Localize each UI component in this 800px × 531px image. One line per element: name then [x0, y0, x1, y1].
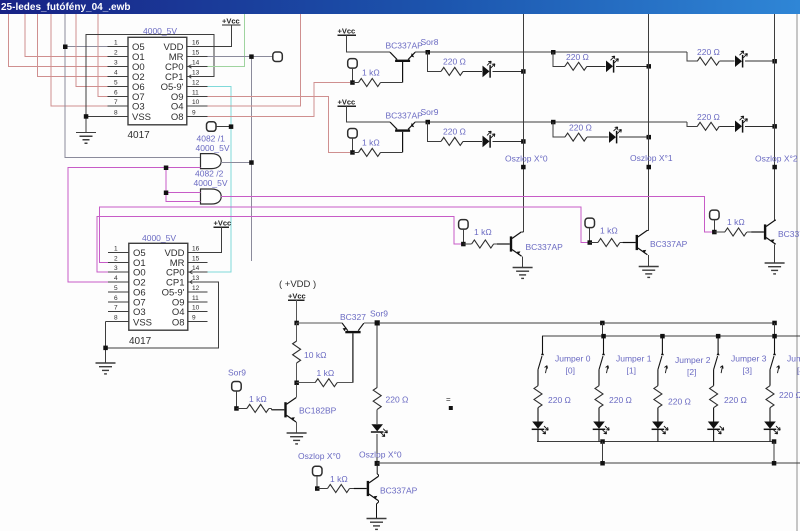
power +Vcc of U1 — [208, 17, 241, 47]
wire R13 to BC327 base riser — [337, 382, 353, 384]
svg-text:2: 2 — [114, 50, 118, 57]
connector pad Sor8 input — [348, 59, 358, 69]
resistor R12 10k vertical — [293, 341, 301, 363]
jumper J4 column — [764, 336, 781, 441]
wire net O2 feed to U1 pin4 — [38, 14, 108, 76]
svg-text:220 Ω: 220 Ω — [569, 123, 592, 133]
wire green CP0 of U1 up to top — [208, 14, 245, 66]
svg-text:12: 12 — [192, 79, 200, 86]
wire node to R9 — [463, 243, 471, 245]
wire Q3 emitter down — [522, 256, 524, 267]
wire R15 to LED7 — [376, 409, 378, 424]
ground GND1 below U1 VSS — [76, 127, 96, 143]
U1 left pin names — [132, 42, 151, 123]
node junction dot gate1 output on MR net — [249, 160, 254, 165]
svg-text:VSS: VSS — [133, 317, 152, 328]
svg-text:VSS: VSS — [132, 112, 151, 123]
wire net O6 feed to U1 pin5 — [76, 14, 108, 86]
wire column Oszlop X^0 — [522, 14, 524, 232]
wire Sor9 col2 branch — [687, 122, 697, 126]
wire Sor9 col0 branch — [428, 122, 441, 141]
wire 10k to node — [296, 363, 298, 383]
wire column Oszlop X^1 — [648, 14, 650, 230]
wire pad to 1k node — [351, 68, 353, 83]
node dot = marker — [449, 406, 453, 410]
U1 right pin numbers — [192, 40, 200, 117]
wire grey MR net: U1 pin15 to connector and down to U2 MR — [208, 57, 274, 261]
svg-text:4017: 4017 — [128, 130, 151, 141]
wire Q7 base link — [271, 408, 273, 409]
resistor R11 1k X2 driver — [725, 228, 747, 236]
jumper J1 column — [593, 336, 610, 441]
node label dot X2 — [772, 165, 777, 170]
svg-text:BC337AP: BC337AP — [386, 41, 424, 51]
svg-text:4082 /2: 4082 /2 — [195, 169, 224, 179]
node junction dot Oszlop pad — [315, 486, 320, 491]
wire node to R14 — [236, 407, 247, 409]
op-amp U3B 4082 gate 2 — [201, 189, 222, 204]
resistor R7 220 Sor9 col1 — [565, 133, 587, 141]
U2 right pin stubs — [188, 252, 208, 321]
wire salmon O8 net: U1 pin9 to Sor8 1k — [208, 83, 351, 117]
svg-text:[3]: [3] — [743, 366, 752, 376]
svg-text:4082 /1: 4082 /1 — [197, 134, 226, 144]
wire LED3 to X2 — [745, 60, 775, 62]
svg-text:BC337AP: BC337AP — [526, 242, 564, 252]
node junction dot LED1/X0 — [521, 69, 526, 74]
U2 left pin names — [133, 248, 152, 328]
svg-text:1 kΩ: 1 kΩ — [362, 68, 380, 78]
svg-text:Sor9: Sor9 — [228, 368, 246, 378]
wire net O0 feed to U1 pin3 — [9, 14, 108, 66]
connector pad Oszlop X0 — [313, 466, 323, 476]
ground GND3 X1 driver — [639, 267, 659, 278]
wire R8 to LED6 — [719, 125, 734, 127]
svg-text:Jumper 0: Jumper 0 — [555, 354, 591, 364]
wire Sor9 col1 branch — [553, 122, 565, 137]
node junction dot Sor8 col0 branch — [426, 50, 431, 55]
op-amp U2 4017 counter box — [129, 243, 188, 330]
resistor R6 220 Sor9 col0 — [441, 137, 463, 145]
power +Vcc Sor8 — [338, 27, 391, 53]
node junction dot rail/drop2 — [772, 321, 777, 326]
wire column Oszlop X^2 — [774, 14, 776, 221]
U2 left pin numbers — [114, 245, 118, 321]
wire node to R16 — [317, 488, 327, 490]
transistor Q4 BC337AP X1 driver — [623, 230, 648, 254]
node junction dot Sor8 1k — [350, 80, 355, 85]
svg-text:BC182BP: BC182BP — [299, 406, 337, 416]
wire node to R10 — [590, 242, 598, 244]
svg-text:11: 11 — [192, 295, 199, 302]
resistor R9 1k X0 driver — [472, 240, 494, 248]
power +Vcc VDD rail — [288, 292, 306, 323]
svg-text:14: 14 — [192, 265, 200, 272]
wire link return bus to lower bus col1 — [602, 442, 604, 464]
svg-text:5: 5 — [114, 79, 118, 86]
svg-text:3: 3 — [114, 59, 118, 66]
resistor R16 1k bottom — [328, 485, 350, 493]
LED D4 Sor9 col0 — [483, 131, 495, 148]
transistor Q5 BC337 X2 driver — [751, 220, 776, 244]
wire top rail Sor9 node to right — [380, 322, 775, 324]
svg-text:O8: O8 — [171, 112, 184, 123]
svg-text:+Vcc: +Vcc — [222, 17, 240, 26]
svg-text:5: 5 — [114, 285, 118, 292]
U2 left pin stubs — [106, 252, 129, 321]
wire pad to node — [462, 229, 464, 244]
wire Q5 emitter down — [774, 244, 776, 263]
wire magenta U2-O2 net to gate inputs — [68, 168, 201, 282]
svg-text:4: 4 — [114, 69, 118, 76]
wire R2 to LED1 — [463, 70, 482, 72]
U1 CP0 clock triangle marker — [188, 65, 191, 69]
op-amp U1 4017 counter box — [128, 37, 187, 125]
node junction dot bus/jumper4 — [772, 334, 777, 339]
node junction dot magenta T2 — [164, 191, 169, 196]
wire LED4 to X0 — [493, 140, 524, 142]
wire LED return bus — [537, 441, 774, 443]
transistor Q2 BC337AP Sor9 — [390, 122, 415, 152]
node junction dot Sor9 col1 branch — [551, 120, 556, 125]
wire Q5 collector to X2 column — [775, 220, 776, 221]
svg-text:220 Ω: 220 Ω — [443, 127, 466, 137]
ground GND5 U2 VSS — [96, 363, 116, 374]
U2 CP0 clock triangle marker — [189, 270, 192, 274]
node junction dot X1 driver input — [588, 240, 593, 245]
ground GND2 X0 driver — [513, 268, 533, 279]
svg-text:BC337AP: BC337AP — [386, 111, 424, 121]
connector pad MR net — [273, 52, 283, 62]
LED D6 Sor9 col2 — [735, 116, 747, 133]
node junction dot X2 driver input — [712, 230, 717, 235]
svg-text:4000_5V: 4000_5V — [142, 233, 176, 243]
resistor R5 1k Sor9 — [359, 148, 381, 156]
svg-text:220 Ω: 220 Ω — [668, 397, 691, 407]
wire net O3 feed to U1 pin7 — [51, 14, 108, 106]
wire net O5 grey: U1 pin1 to gate U3A input — [65, 14, 201, 157]
svg-text:220 Ω: 220 Ω — [779, 390, 800, 400]
resistor R10 1k X1 driver — [598, 239, 620, 247]
svg-text:13: 13 — [192, 70, 200, 77]
svg-text:220 Ω: 220 Ω — [697, 112, 720, 122]
svg-text:Jumper 2: Jumper 2 — [675, 355, 711, 365]
wire R16 to Q8 base — [350, 488, 354, 490]
resistor R3 220 Sor8 col1 — [565, 62, 587, 70]
svg-text:7: 7 — [114, 99, 118, 106]
U1 left pin stubs 1-8 — [108, 47, 129, 117]
wire +VDD node to BC327 emitter — [297, 322, 343, 324]
svg-text:3: 3 — [114, 265, 118, 272]
svg-text:Jumper 4: Jumper 4 — [787, 354, 800, 364]
svg-text:Oszlop X°1: Oszlop X°1 — [630, 153, 673, 163]
LED D3 Sor8 col2 — [735, 51, 747, 68]
svg-text:220 Ω: 220 Ω — [386, 395, 409, 405]
wire R1 to Q1 base — [381, 82, 403, 84]
svg-text:1: 1 — [114, 245, 118, 252]
node junction dot lower/col4 — [772, 461, 777, 466]
node junction dot Sor9 pad — [234, 406, 239, 411]
node junction dot LED3/X2 — [772, 59, 777, 64]
ground GND4 X2 driver — [765, 263, 785, 274]
node junction dot MR net — [249, 54, 254, 59]
node junction dot LED4/X0 — [521, 139, 526, 144]
svg-text:1 kΩ: 1 kΩ — [362, 138, 380, 148]
svg-text:4000_5V: 4000_5V — [143, 26, 177, 36]
svg-text:1 kΩ: 1 kΩ — [317, 368, 335, 378]
node junction dot X0 bottom node — [375, 461, 380, 466]
wire LED1 to X0 — [493, 70, 524, 72]
svg-text:[2]: [2] — [687, 367, 696, 377]
resistor R4 220 Sor8 col2 — [697, 57, 719, 65]
wire salmon O9 net: U1 pin11 to Sor9 1k — [208, 96, 351, 152]
node junction dot +VDD node — [294, 321, 299, 326]
wire 10k from +VDD node down — [296, 323, 298, 341]
wire U2 VSS down — [105, 322, 107, 364]
wire net O1 feed to U1 pin2 — [25, 14, 108, 57]
transistor Q7 BC182BP — [272, 398, 297, 422]
node B junction dot VSS rail — [84, 114, 89, 119]
wire LED5 to X1 — [619, 136, 649, 138]
transistor Q3 BC337AP X0 driver — [497, 232, 522, 256]
svg-text:Oszlop X°0: Oszlop X°0 — [505, 154, 548, 164]
jumper J0 column — [532, 336, 549, 441]
svg-text:15: 15 — [192, 255, 200, 262]
wire node to R5 — [352, 151, 358, 153]
op-amp U3A 4082 gate 1 — [201, 154, 222, 169]
svg-text:9: 9 — [192, 109, 196, 116]
connector pad X0 driver — [459, 220, 469, 230]
svg-text:1 kΩ: 1 kΩ — [600, 226, 618, 236]
wire R4 to LED3 — [719, 60, 734, 62]
resistor R2 220 Sor8 col0 — [441, 67, 463, 75]
svg-text:BC327: BC327 — [340, 312, 366, 322]
svg-text:10: 10 — [192, 305, 200, 312]
wire Sor8 col1 branch — [553, 52, 565, 66]
wire Q7 emitter down to ground — [295, 422, 298, 433]
svg-text:+Vcc: +Vcc — [338, 27, 356, 36]
resistor R15 220 vertical — [373, 387, 381, 409]
transistor Q6 BC327 — [342, 323, 364, 383]
svg-text:Sor9: Sor9 — [421, 107, 439, 117]
U2 right pin names — [162, 248, 185, 328]
svg-text:Oszlop X°0: Oszlop X°0 — [298, 451, 341, 461]
U1 right pin names — [161, 42, 184, 123]
wire pad to 1k node — [351, 138, 353, 152]
node A junction dot pin1/O5 — [63, 45, 68, 50]
ground GND7 Q8 — [367, 519, 387, 530]
wire link return bus to lower bus col4 — [773, 442, 775, 464]
wire R9 to Q3 base — [494, 243, 497, 245]
wire R10 to Q4 base — [620, 242, 623, 244]
node junction dot return/col1 — [600, 439, 605, 444]
wire U2 CP1 to VSS rail — [106, 282, 219, 348]
wire Q4 collector to X1 column — [647, 229, 648, 231]
svg-text:14: 14 — [192, 59, 200, 66]
svg-text:( +VDD ): ( +VDD ) — [279, 279, 316, 290]
svg-text:9: 9 — [192, 315, 196, 322]
svg-text:1 kΩ: 1 kΩ — [727, 217, 745, 227]
resistor R1 1k Sor8 — [359, 79, 381, 87]
wire R11 to Q5 base — [747, 231, 751, 233]
node label dot X1 — [647, 165, 652, 170]
svg-text:16: 16 — [192, 245, 200, 252]
Q2 emitter wire to node — [415, 121, 687, 123]
wire R3 to LED2 — [587, 65, 606, 67]
svg-text:Oszlop X°2: Oszlop X°2 — [755, 154, 798, 164]
wire Q3 collector to X0 column — [522, 231, 523, 233]
wire R6 to LED4 — [463, 140, 482, 142]
LED D1 Sor8 col0 — [483, 61, 495, 78]
svg-text:Sor9: Sor9 — [370, 309, 388, 319]
svg-text:220 Ω: 220 Ω — [443, 57, 466, 67]
svg-text:1: 1 — [114, 40, 118, 47]
LED D5 Sor9 col1 — [609, 127, 621, 144]
svg-text:220 Ω: 220 Ω — [609, 395, 632, 405]
node junction dot on cyan net — [229, 124, 234, 128]
LED D2 Sor8 col1 — [606, 56, 618, 73]
connector pad Sor9 bottom — [232, 382, 242, 392]
svg-text:10: 10 — [192, 99, 200, 106]
wire pad to node — [713, 220, 715, 233]
resistor R14 1k Sor9 bottom — [247, 404, 269, 412]
wire node to R1 — [352, 82, 358, 84]
node junction dot U2 VSS rail — [103, 346, 108, 351]
svg-text:O8: O8 — [172, 317, 185, 328]
power +Vcc of U2 — [208, 219, 232, 253]
wire salmon O4 net: U1 pin10 up off-screen — [208, 14, 301, 106]
svg-text:4000_5V: 4000_5V — [196, 143, 230, 153]
jumper J3 column — [707, 336, 724, 441]
wire rail drop at col4 — [774, 323, 776, 336]
U2 right pin numbers — [192, 245, 200, 321]
svg-text:+Vcc: +Vcc — [338, 98, 356, 107]
svg-text:[0]: [0] — [566, 366, 575, 376]
wire net O7 feed to U1 pin6 — [98, 14, 108, 96]
node junction dot lower/col1 — [600, 461, 605, 466]
wire jumper feed bus — [543, 336, 800, 344]
wire LED7 down to X0 node — [376, 434, 378, 463]
svg-text:4: 4 — [114, 275, 118, 282]
wire R14 to Q7 base — [269, 407, 272, 409]
node junction dot bus/jumper1 — [601, 334, 606, 339]
wire R5 to Q2 base — [381, 151, 403, 153]
svg-text:Jumper 3: Jumper 3 — [731, 354, 767, 364]
wire Q7 collector up to node — [295, 385, 298, 398]
svg-text:[1]: [1] — [627, 366, 636, 376]
jumper J2 column — [652, 336, 669, 441]
U2 CP1 marker — [190, 280, 192, 283]
wire pad to node — [316, 476, 318, 489]
svg-text:BC337AP: BC337AP — [380, 486, 418, 496]
node junction dot Sor9 col0 branch — [426, 120, 431, 125]
svg-text:+Vcc: +Vcc — [214, 219, 232, 228]
wire lower bus to right edge — [377, 462, 800, 464]
LED D7 pointing down — [371, 424, 388, 436]
connector pad on cyan net — [207, 122, 217, 132]
svg-text:10 kΩ: 10 kΩ — [304, 350, 326, 360]
node junction dot Sor9 1k — [350, 150, 355, 155]
svg-text:6: 6 — [114, 89, 118, 96]
svg-text:2: 2 — [114, 255, 118, 262]
wire Sor8 col0 branch — [428, 52, 441, 71]
connector pad Sor9 input — [348, 129, 358, 139]
U1 CP1 marker — [189, 75, 191, 78]
connector pad X2 driver — [710, 210, 720, 220]
resistor R13 1k to BC327 base — [315, 379, 337, 387]
wire LED6 to X2 — [745, 125, 775, 127]
connector pad X1 driver — [585, 218, 595, 228]
svg-text:220 Ω: 220 Ω — [548, 395, 571, 405]
wire node to R13 — [297, 382, 316, 384]
wire LED2 to X1 — [616, 65, 649, 67]
svg-text:15: 15 — [192, 50, 200, 57]
title bar — [0, 0, 800, 14]
svg-text:Oszlop X°0: Oszlop X°0 — [359, 450, 402, 460]
ground GND6 BC182BP — [287, 433, 307, 444]
node junction dot magenta T1 — [164, 166, 169, 171]
svg-text:16: 16 — [192, 40, 200, 47]
wire Sor9 node down to 220 — [376, 326, 378, 388]
resistor R8 220 Sor9 col2 — [697, 122, 719, 130]
svg-text:4017: 4017 — [129, 336, 152, 347]
node junction dot Sor8 col1 branch — [551, 50, 556, 55]
node junction dot bus/jumper2 — [660, 334, 665, 339]
node label dot X0 — [521, 165, 526, 170]
node junction dot rail/drop1 — [600, 321, 605, 326]
right window border — [796, 14, 798, 531]
svg-text:1 kΩ: 1 kΩ — [474, 227, 492, 237]
svg-text:BC337: BC337 — [778, 229, 800, 239]
U1 right pin stubs 16-9 — [187, 47, 208, 117]
node junction dot LED2/X1 — [647, 64, 652, 69]
wire pad to node — [589, 228, 591, 243]
node junction dot 10k/1k/collector — [294, 381, 299, 386]
svg-text:11: 11 — [192, 89, 199, 96]
svg-text:7: 7 — [114, 305, 118, 312]
wire node to R11 — [714, 231, 725, 233]
wire Q8 emitter down — [377, 501, 379, 519]
wire BC327 collector to Sor9 node — [364, 322, 377, 324]
svg-text:Jumper 1: Jumper 1 — [616, 354, 652, 364]
node junction dot LED6/X2 — [772, 124, 777, 129]
svg-text:1 kΩ: 1 kΩ — [249, 394, 267, 404]
wire connector to cyan junction — [216, 126, 231, 128]
svg-text:+Vcc: +Vcc — [288, 292, 306, 301]
svg-text:Sor8: Sor8 — [421, 37, 439, 47]
svg-text:220 Ω: 220 Ω — [566, 52, 589, 62]
svg-text:8: 8 — [114, 315, 118, 322]
node junction dot X0 driver input — [461, 242, 466, 247]
power +Vcc Sor9 — [338, 98, 391, 123]
transistor Q1 BC337AP Sor8 — [390, 52, 415, 82]
svg-text:220 Ω: 220 Ω — [697, 47, 720, 57]
svg-text:220 Ω: 220 Ω — [724, 395, 747, 405]
node junction dot Sor9 mid node — [375, 320, 380, 325]
U1 left pin numbers — [114, 40, 118, 117]
wire magenta bus U2-O0 to X0 driver — [97, 216, 462, 272]
svg-text:1 kΩ: 1 kΩ — [330, 474, 348, 484]
Q1 emitter wire to node — [415, 51, 687, 53]
wire VSS/CP1 ground rail of U1 — [86, 35, 214, 127]
svg-text:4000_5V: 4000_5V — [194, 178, 228, 188]
wire magenta gate2 output to X2 driver — [221, 197, 712, 233]
wire magenta bus U2-O1 to X1 driver — [100, 207, 588, 262]
wire Sor8 col2 branch — [687, 52, 697, 61]
svg-text:6: 6 — [114, 295, 118, 302]
svg-text:BC337AP: BC337AP — [650, 239, 688, 249]
svg-text:13: 13 — [192, 275, 200, 282]
